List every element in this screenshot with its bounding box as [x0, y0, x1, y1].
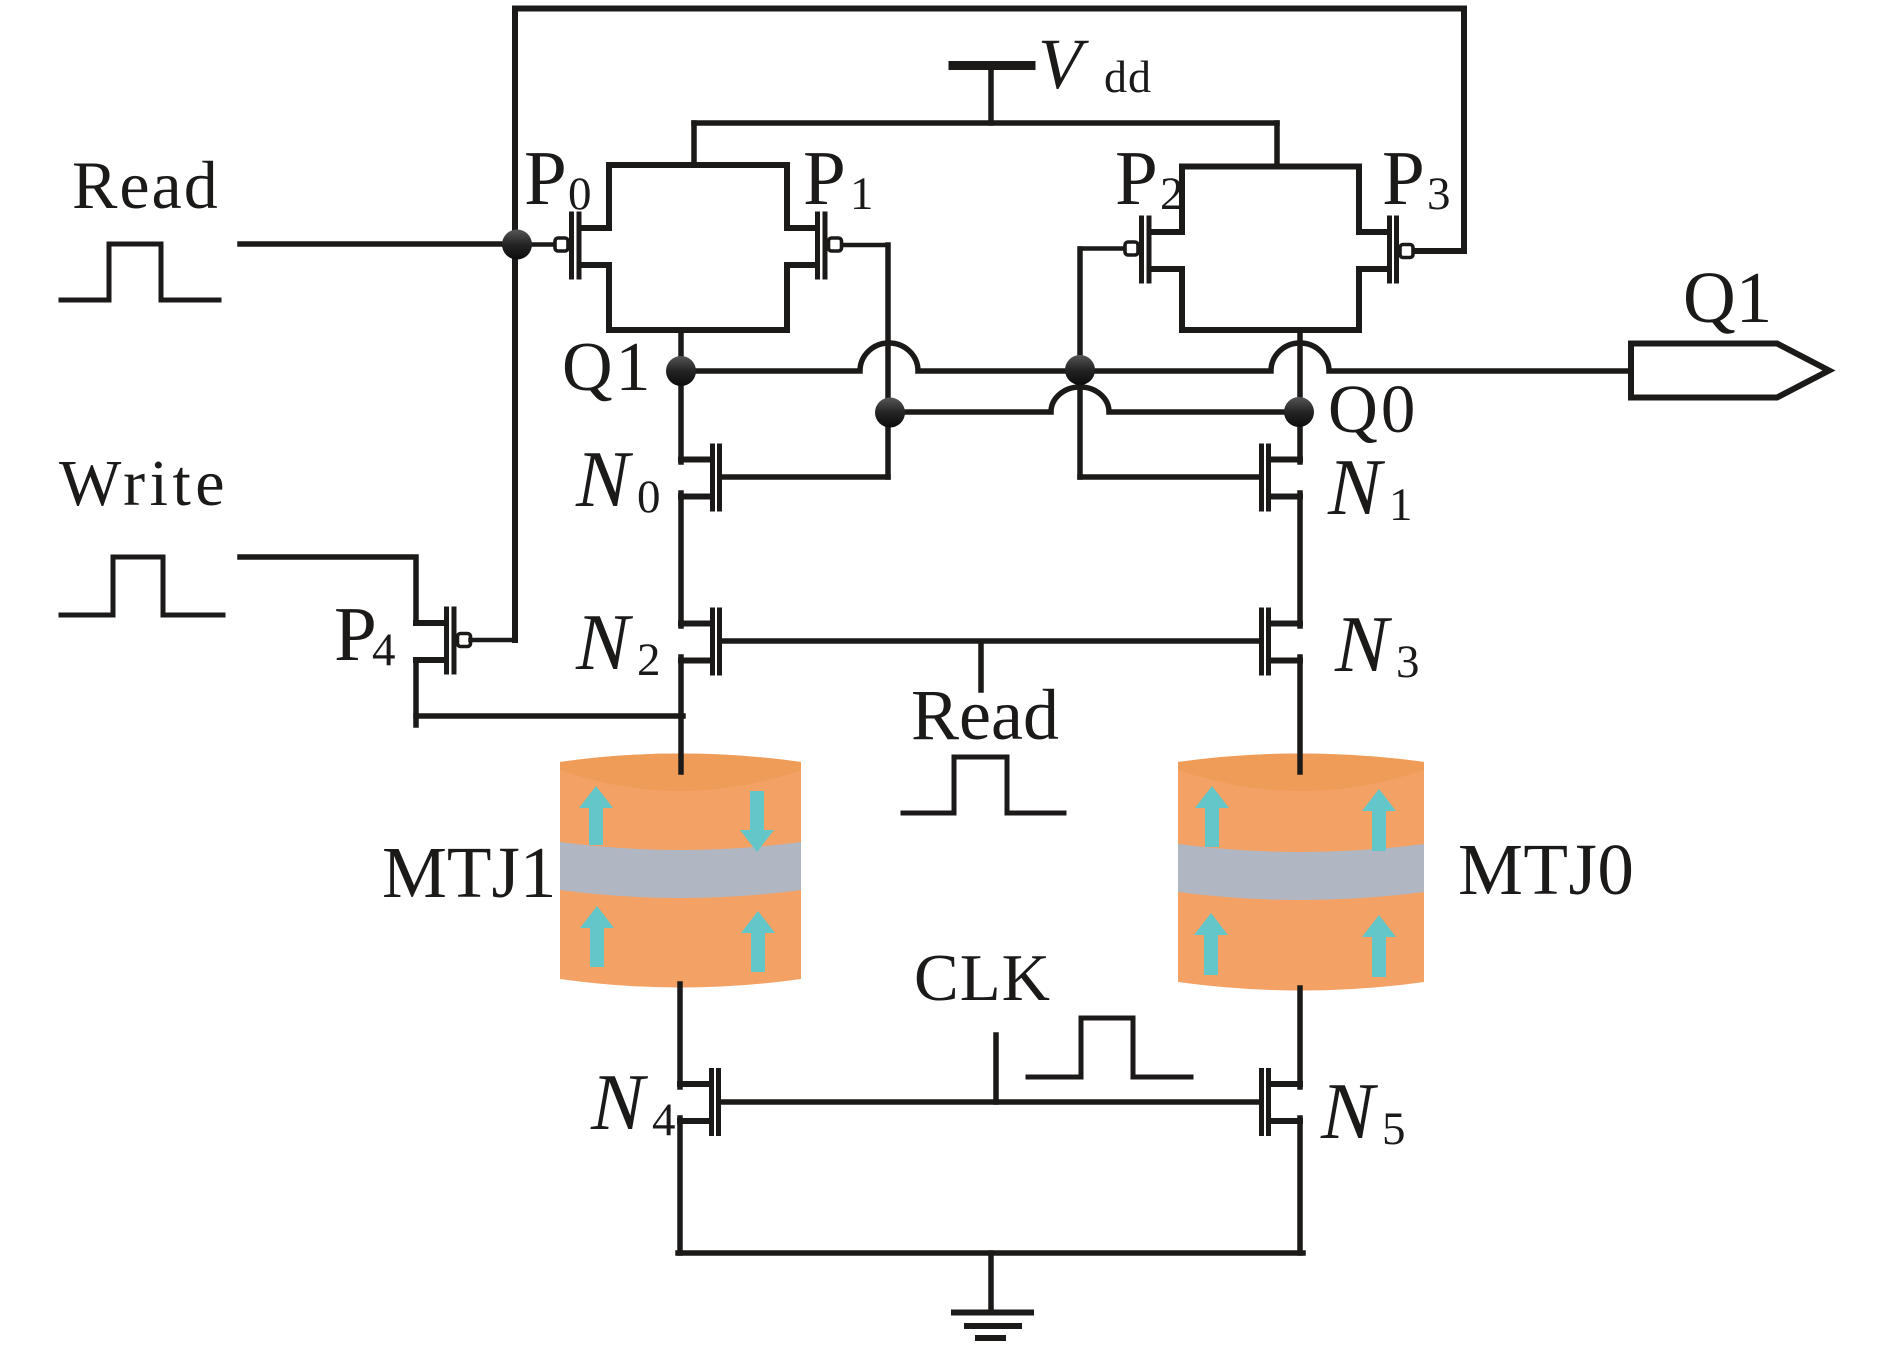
svg-text:Write: Write — [59, 447, 229, 520]
wire P4 source down and right to MTJ1 column — [416, 661, 683, 716]
wire outer loop: read vertical, top border, right side to P3 gate — [515, 9, 1464, 641]
wire N2 N3 gate line — [722, 638, 1259, 644]
wire P2 gate vertical to Q1 line and N1 gate — [1077, 249, 1083, 477]
svg-text:1: 1 — [1389, 479, 1413, 531]
MTJ0 arrow up top-left — [1195, 786, 1229, 847]
transistor P0 — [517, 214, 579, 277]
wire P2P3 rect bottom to Q0 node — [1297, 330, 1303, 412]
wire Read drop to N2N3 gates — [978, 644, 984, 690]
read pulse middle — [903, 757, 1064, 813]
transistor N0 — [681, 446, 720, 509]
MTJ1 top rim shading — [560, 754, 801, 792]
node Q1 — [666, 356, 696, 386]
svg-text:N: N — [1334, 601, 1393, 689]
transistor N3 — [1262, 610, 1301, 673]
MTJ devices (drawn first, wires overlap on top) — [560, 754, 1424, 991]
ground — [988, 1253, 994, 1312]
svg-text:Q1: Q1 — [562, 329, 654, 406]
wire N5 source to bottom rail — [1297, 1118, 1303, 1253]
wire Write to P4 — [240, 557, 416, 622]
wire N1 source to N3 drain — [1297, 493, 1303, 626]
wire Q0 node to N1 drain — [1297, 412, 1303, 462]
MTJ1 arrow up bottom-left — [580, 906, 614, 967]
wire Read input to P0 gate node — [240, 241, 517, 247]
svg-text:0: 0 — [568, 168, 592, 220]
MTJ0 barrier band — [1178, 844, 1424, 900]
MTJ1 arrow up bottom-right — [741, 911, 775, 972]
svg-text:2: 2 — [637, 634, 661, 686]
wire P0P1 rect bottom to Q1 node — [678, 330, 684, 371]
svg-text:P: P — [1115, 135, 1158, 221]
write pulse input — [61, 557, 223, 615]
wire MTJ1 bottom to N4 drain — [677, 984, 683, 1087]
svg-text:Q1: Q1 — [1683, 257, 1772, 338]
MTJ1 arrow up top-left — [579, 786, 613, 845]
svg-text:V: V — [1038, 24, 1089, 104]
svg-text:Read: Read — [72, 147, 220, 223]
svg-text:P: P — [524, 135, 567, 221]
wire N4 N5 gate line — [722, 1099, 1259, 1105]
MTJ1 body — [560, 754, 801, 988]
MTJ1 arrow down top-right — [740, 791, 774, 852]
svg-text:4: 4 — [372, 624, 396, 676]
output flag Q1 — [1631, 344, 1829, 398]
transistor P3 — [1390, 218, 1465, 281]
svg-text:2: 2 — [1160, 168, 1184, 220]
svg-text:Q0: Q0 — [1328, 371, 1418, 447]
junction dots — [502, 230, 1314, 428]
wire N4 source to bottom rail — [677, 1118, 683, 1253]
read pulse input — [61, 244, 219, 300]
svg-text:CLK: CLK — [914, 941, 1051, 1015]
op P0-P1 source-drain frame — [581, 165, 816, 228]
MTJ1 barrier band — [560, 842, 801, 898]
svg-text:N: N — [1327, 444, 1386, 532]
wire P1 gate vertical to Q0 node and N0 gate — [885, 245, 891, 477]
svg-text:4: 4 — [652, 1094, 676, 1146]
node Read-P0 junction — [502, 230, 532, 260]
svg-text:N: N — [575, 599, 634, 687]
node Q0 line to P1 gate — [875, 398, 905, 428]
transistor N2 — [681, 610, 720, 673]
MTJ0 body — [1178, 754, 1424, 991]
node Q1 line to P2 gate — [1065, 355, 1095, 385]
wire Vdd rail drop left — [691, 123, 697, 165]
svg-text:3: 3 — [1427, 168, 1451, 220]
wire N0 gate lead — [722, 474, 888, 480]
wire Vdd rail drop right — [1274, 123, 1280, 166]
wire N0 source to N2 drain — [678, 493, 684, 626]
transistor N1 — [1262, 446, 1301, 509]
svg-text:P: P — [1382, 135, 1425, 221]
wire Q1 horizontal with hops to output — [681, 343, 1631, 371]
wire bottom rail — [678, 1250, 1303, 1256]
transistor P1 — [818, 214, 889, 277]
svg-text:1: 1 — [850, 168, 874, 220]
wire CLK stub — [993, 1035, 999, 1102]
wire MTJ0 bottom to N5 drain — [1297, 988, 1303, 1087]
node Q0 — [1284, 397, 1314, 427]
svg-text:Read: Read — [911, 675, 1059, 755]
wire N2 source down into MTJ1 top — [678, 657, 684, 772]
svg-text:N: N — [1320, 1068, 1379, 1156]
MTJ0 arrow up bottom-right — [1362, 915, 1396, 977]
transistors — [416, 165, 1464, 1134]
svg-text:MTJ1: MTJ1 — [382, 832, 556, 913]
transistor P2 — [1080, 218, 1149, 281]
op P2-P3 source-drain frame — [1154, 167, 1387, 233]
wire Q0 horizontal with hop — [890, 387, 1299, 412]
svg-text:N: N — [590, 1059, 649, 1147]
MTJ0 arrow up bottom-left — [1194, 913, 1228, 975]
transistor P4 — [416, 609, 515, 672]
MTJ0 arrow up top-right — [1362, 789, 1396, 851]
wire stub at P4 corner — [413, 716, 419, 725]
wire N1 gate lead — [1080, 474, 1259, 480]
svg-text:MTJ0: MTJ0 — [1458, 829, 1634, 910]
svg-text:N: N — [575, 436, 634, 524]
wire N3 source to MTJ0 top — [1297, 657, 1303, 772]
svg-text:0: 0 — [637, 471, 661, 523]
svg-text:dd: dd — [1104, 51, 1152, 102]
svg-text:P: P — [803, 135, 846, 221]
svg-text:P: P — [334, 591, 377, 677]
wire Q1 node down to N0 drain — [678, 371, 684, 462]
Vdd rail — [694, 120, 1277, 126]
transistor N4 — [680, 1071, 719, 1134]
svg-text:5: 5 — [1382, 1103, 1406, 1155]
clock pulse — [1028, 1018, 1191, 1077]
MTJ0 top rim shading — [1178, 754, 1424, 792]
svg-text:3: 3 — [1396, 636, 1420, 688]
transistor N5 — [1262, 1071, 1301, 1134]
power symbol Vdd — [953, 61, 1031, 70]
